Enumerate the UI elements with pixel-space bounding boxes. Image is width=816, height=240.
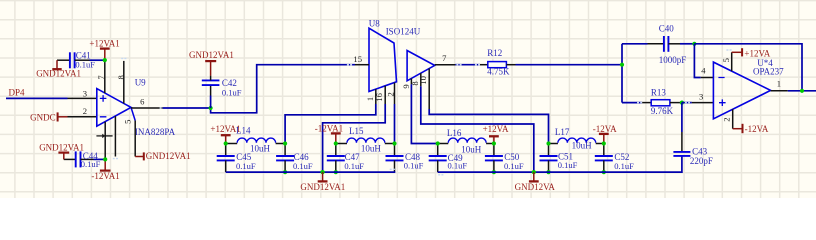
power +12VA1 at U9 pin 7 [104,49,106,60]
svg-text:L17: L17 [555,127,570,137]
svg-text:220pF: 220pF [690,156,713,166]
wire U8 pin9 to L16 node [411,84,437,143]
capacitor C45 [225,144,227,157]
wire U9 output to C42 and U8 [163,107,211,109]
pin 7 of U9 [104,60,106,93]
junction L17 left [546,141,550,145]
junction C40 right [692,42,696,46]
svg-text:15: 15 [353,54,362,64]
svg-text:2: 2 [83,106,87,116]
svg-text:L16: L16 [447,128,462,138]
svg-text:10: 10 [418,76,428,85]
svg-text:+12VA: +12VA [483,124,509,134]
wire U8 pin1 to L14 node [285,104,376,144]
junction R13/C43 [680,101,684,105]
capacitor C50 [493,144,495,157]
pin 6 of U9 output [131,107,163,109]
inductor L14 [226,143,238,145]
svg-text:0.1uF: 0.1uF [558,160,578,170]
junction C52 bottom [602,170,606,174]
resistor R12 [480,64,488,66]
svg-text:L15: L15 [349,126,364,136]
svg-text:GND12VA1: GND12VA1 [146,151,191,161]
svg-text:6: 6 [140,97,145,107]
feedback node vertical wire [621,44,623,103]
junction L16 right [492,141,496,145]
svg-text:5: 5 [721,58,731,62]
svg-text:GND12VA1: GND12VA1 [36,68,81,78]
wire U8 output to R12 [455,64,480,66]
wire R12 to feedback node [516,64,623,66]
svg-text:C40: C40 [659,24,675,34]
svg-text:ISO124U: ISO124U [386,27,421,37]
svg-text:0.1uF: 0.1uF [236,161,256,171]
junction L17 right [602,141,606,145]
svg-text:-12VA1: -12VA1 [91,171,119,181]
svg-text:4.75K: 4.75K [487,67,510,77]
pin 16 of U8 [384,86,386,104]
power -12VA1 at L15 [335,133,337,143]
svg-text:L14: L14 [236,126,251,136]
capacitor C44 [64,158,76,160]
svg-text:10uH: 10uH [250,144,271,154]
wire U8 pin10 to L17 node [429,109,548,144]
power -12VA at L17 [603,134,605,144]
inductor L17 [549,143,558,145]
svg-text:U9: U9 [135,78,146,88]
wire OPA237 output [788,90,816,92]
ground rail 2 [438,174,443,176]
capacitor C51 [548,144,550,157]
pin 5 of U9 with REF line [131,107,135,120]
svg-text:GND12VA1: GND12VA1 [189,50,234,60]
svg-text:7: 7 [442,53,447,63]
svg-text:2: 2 [722,117,732,121]
wire U8 pin8 to ground rail 2 [421,86,534,172]
svg-text:0.1uF: 0.1uF [222,87,242,97]
pin 2 of U9 [68,116,97,118]
svg-text:0.1uF: 0.1uF [344,161,364,171]
svg-text:1: 1 [777,79,781,89]
junction C42 tap [209,106,213,110]
capacitor C43 [681,103,683,132]
junction output/feedback [800,89,804,93]
svg-text:+12VA: +12VA [744,48,770,58]
svg-text:0.1uF: 0.1uF [614,161,634,171]
capacitor C41 [57,59,70,61]
wire U8 pin16 to ground rail [323,104,386,172]
junction C47 bottom [334,170,338,174]
capacitor C47 [335,144,337,157]
svg-text:16: 16 [374,92,384,101]
pin 3 of U9 [68,97,97,99]
svg-text:0.1uF: 0.1uF [293,161,313,171]
junction C46 bottom [283,170,287,174]
junction C50 bottom [492,170,496,174]
svg-text:10uH: 10uH [361,144,382,154]
isolation amp U8 body [369,28,397,91]
svg-text:-12VA: -12VA [745,124,769,134]
svg-text:0.1uF: 0.1uF [504,161,524,171]
capacitor C46 [284,144,286,157]
pin 1 of U8 [375,89,377,104]
svg-text:-12VA: -12VA [593,124,617,134]
svg-text:OPA237: OPA237 [753,66,784,76]
pin 10 of U8 [428,69,430,110]
op-amp U*4 OPA237 triangle [713,62,770,119]
ground GND12VA1 at C44 [63,153,65,160]
ground GND12VA1 at U9 pin 5 [135,156,144,158]
svg-text:DP4: DP4 [9,88,26,98]
wire R13 to OPA237 pin 3 [682,102,692,104]
svg-text:4: 4 [701,66,706,76]
svg-text:10uH: 10uH [461,144,482,154]
svg-text:3: 3 [699,92,703,102]
pin 8 of U9 [123,61,125,104]
junction rail2 GND [532,170,536,174]
power +12VA1 at L14 [225,135,227,143]
pin 4 of OPA237 [701,77,714,79]
svg-text:9.76K: 9.76K [651,106,674,116]
svg-text:0.1uF: 0.1uF [404,160,424,170]
power +12VA at L16 [493,136,495,143]
top feedback rail [694,44,802,91]
wire U8 pin2 to L15 node [394,104,396,144]
svg-text:0.1uF: 0.1uF [448,161,468,171]
capacitor C42 [210,96,212,109]
ground GND12VA1 at C41 [56,60,58,69]
wire DP4 to U9 pin 3 [6,97,68,99]
capacitor C52 [603,144,605,157]
op-amp U9 triangle [97,89,131,127]
inductor L16 [438,143,449,145]
pin 15 of U8 [355,64,369,66]
ground GND12VA1 at rail 1 [322,172,324,181]
svg-text:1000pF: 1000pF [659,55,687,65]
pin 9 of U8 [410,78,412,84]
junction L15 right [392,141,396,145]
capacitor C49 [437,144,439,157]
pin 7 of U8 output [435,64,456,66]
capacitor C48 [394,144,396,157]
gain arrow mark of U9 [96,135,102,137]
power +12VA at OPA237 pin 5 [732,51,742,53]
svg-text:GNDC: GNDC [30,112,56,122]
svg-text:R13: R13 [651,87,667,97]
svg-text:U8: U8 [369,18,380,28]
svg-text:7: 7 [96,75,106,80]
power -12VA at OPA237 pin 2 [733,128,743,130]
svg-text:8: 8 [116,75,126,79]
capacitor C40 [622,43,648,45]
pin 8 of U8 [420,73,422,86]
pin 2 of OPA237 [732,109,734,129]
ground rail 1 [390,168,395,170]
svg-text:GND12VA: GND12VA [515,182,556,192]
svg-text:3: 3 [83,88,87,98]
pin 4 of U9 (RG) [114,116,116,156]
inductor L15 [336,143,347,145]
junction C44/pin1/-12VA1 [103,157,107,161]
svg-text:5: 5 [122,120,132,124]
svg-text:2: 2 [385,92,395,96]
svg-text:+12VA1: +12VA1 [89,39,119,49]
ground GND12VA1 at C42 [210,61,212,76]
svg-text:GND12VA1: GND12VA1 [39,142,84,152]
pin 1 of OPA237 output [771,90,788,92]
pin 1 of U9 (RG) [104,122,106,160]
junction L16 left [436,141,440,145]
resistor R13 [622,102,642,104]
junction L14 right [283,141,287,145]
svg-text:10uH: 10uH [572,141,593,151]
ground GND12VA at rail 2 [533,172,535,181]
junction L15 left [334,141,338,145]
svg-text:INA828PA: INA828PA [135,127,176,137]
svg-text:0.1uF: 0.1uF [81,159,101,169]
junction C51 bottom [546,170,550,174]
pin 3 of OPA237 [692,102,714,104]
svg-text:GND12VA1: GND12VA1 [300,182,345,192]
junction L14 left [224,141,228,145]
svg-text:-12VA1: -12VA1 [315,124,343,134]
pin 2 of U8 [394,83,396,104]
junction feedback node [620,63,624,67]
svg-text:R12: R12 [487,48,502,58]
junction rail1 GND [321,170,325,174]
wire C40 to OPA237 pin 4 [694,44,700,78]
power -12VA1 at C44/pin1 [104,159,106,170]
pin 5 of OPA237 [731,52,733,71]
junction pin7/C41/+12VA1 [103,58,107,62]
